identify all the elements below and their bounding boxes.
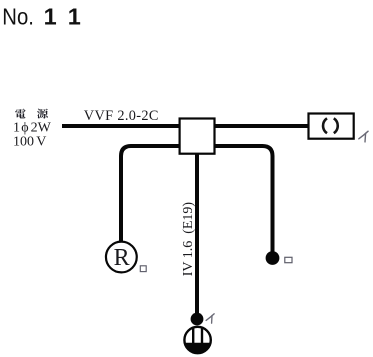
- svg-text:ϕ: ϕ: [21, 121, 28, 136]
- svg-text:R: R: [114, 245, 130, 271]
- svg-text:1: 1: [68, 4, 81, 30]
- svg-text:2W: 2W: [31, 121, 52, 136]
- svg-text:IV 1.6 (E19): IV 1.6 (E19): [181, 202, 196, 277]
- svg-text:V: V: [36, 134, 46, 149]
- svg-text:100: 100: [13, 134, 34, 149]
- svg-text:1: 1: [44, 4, 57, 30]
- svg-text:No.: No.: [2, 4, 34, 30]
- svg-text:VVF 2.0-2C: VVF 2.0-2C: [84, 108, 159, 124]
- svg-text:1: 1: [13, 121, 20, 136]
